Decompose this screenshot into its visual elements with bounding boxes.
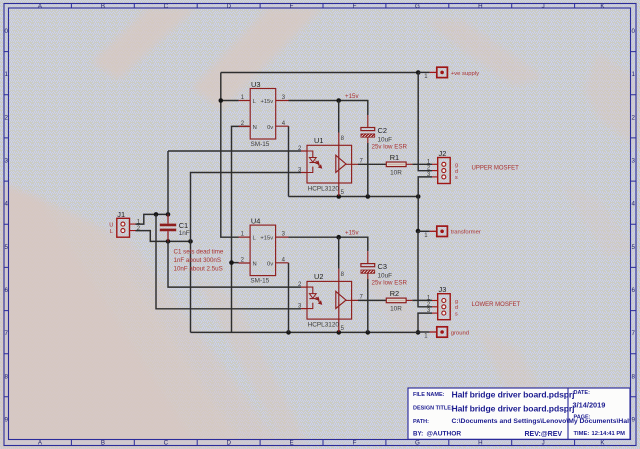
svg-text:+15v: +15v — [345, 93, 359, 100]
svg-text:1: 1 — [631, 71, 635, 78]
svg-text:4: 4 — [4, 201, 8, 208]
wire U signal to U2 pin3 — [156, 214, 301, 308]
svg-text:C: C — [164, 440, 169, 447]
svg-text:U2: U2 — [314, 272, 323, 281]
wire N rail U3 pin2 to U4 pin2 — [232, 126, 249, 262]
svg-text:25v low ESR: 25v low ESR — [372, 280, 408, 287]
svg-text:H: H — [478, 440, 482, 447]
junction C1 bottom node — [166, 239, 171, 244]
svg-text:10nF about 2.5uS: 10nF about 2.5uS — [174, 266, 223, 273]
svg-text:SM-15: SM-15 — [250, 278, 269, 285]
svg-text:J: J — [542, 3, 545, 10]
svg-text:G: G — [415, 440, 420, 447]
junction C3 neg node — [366, 330, 371, 335]
svg-text:@AUTHOR: @AUTHOR — [427, 431, 462, 438]
svg-text:DATE:: DATE: — [574, 390, 591, 396]
svg-text:N: N — [253, 125, 257, 131]
svg-text:REV:@REV: REV:@REV — [525, 431, 563, 438]
svg-text:U: U — [109, 223, 113, 229]
svg-text:7: 7 — [631, 330, 635, 337]
svg-text:10R: 10R — [390, 170, 402, 177]
svg-text:TIME:: TIME: — [574, 431, 590, 437]
wire J2 pin3 source down — [418, 177, 432, 231]
svg-text:Half bridge driver board.pdspr: Half bridge driver board.pdsprj — [452, 403, 575, 413]
svg-text:9: 9 — [631, 416, 635, 423]
wire U1 pin7 to R1 — [358, 163, 386, 165]
title block — [408, 388, 640, 439]
svg-text:BY:: BY: — [413, 431, 423, 438]
resistor R2 10R — [386, 289, 412, 313]
svg-text:C: C — [164, 3, 169, 10]
svg-text:U1: U1 — [314, 136, 323, 145]
svg-text:3: 3 — [631, 158, 635, 165]
wire +ve to J2 pin2 drain — [418, 73, 432, 171]
junction L signal / U1 pin3 node — [188, 239, 193, 244]
svg-text:7: 7 — [4, 330, 8, 337]
junction upper 0v / J2 s node — [416, 194, 421, 199]
svg-text:+15v: +15v — [260, 99, 273, 105]
wire upper 0v rail — [289, 196, 419, 198]
svg-text:H: H — [478, 3, 482, 10]
svg-text:2: 2 — [4, 114, 8, 121]
svg-text:d: d — [455, 169, 458, 175]
svg-text:8: 8 — [631, 373, 635, 380]
svg-text:ground: ground — [451, 330, 469, 336]
junction transformer node — [416, 229, 421, 234]
wire wire +15v to C3 — [339, 237, 368, 251]
svg-text:C3: C3 — [378, 262, 387, 271]
svg-text:10R: 10R — [390, 306, 402, 313]
connector J2 3-pin — [427, 149, 519, 184]
svg-text:C1: C1 — [179, 221, 188, 230]
svg-text:D: D — [226, 3, 231, 10]
svg-text:4: 4 — [631, 201, 635, 208]
svg-text:D: D — [226, 440, 231, 447]
note C1 dead time — [174, 249, 224, 273]
wire L signal to U2 pin2 — [168, 241, 301, 287]
resistor R1 10R — [386, 153, 412, 177]
junction +ve supply node — [416, 70, 421, 75]
junction C2 neg node — [366, 194, 371, 199]
svg-text:U3: U3 — [251, 80, 260, 89]
wire R2 to J3 pin1 — [412, 299, 432, 301]
optocoupler gate driver U2 HCPL3120 — [298, 269, 364, 333]
svg-text:R2: R2 — [390, 289, 399, 298]
wire U1 pin2 wire — [168, 150, 301, 152]
svg-text:HCPL3120: HCPL3120 — [308, 186, 340, 193]
junction U signal node — [154, 212, 159, 217]
wire U4 pin3 +15v wire — [289, 236, 339, 238]
svg-text:6: 6 — [631, 287, 635, 294]
svg-text:0: 0 — [4, 28, 8, 35]
capacitor C3 electrolytic — [361, 251, 408, 287]
svg-text:Half bridge driver board.pdspr: Half bridge driver board.pdsprj — [452, 390, 575, 400]
junction ground node — [416, 330, 421, 335]
svg-text:+15v: +15v — [260, 236, 273, 242]
svg-text:0v: 0v — [267, 125, 273, 131]
terminal ground — [418, 327, 469, 340]
svg-text:3: 3 — [4, 158, 8, 165]
svg-text:LOWER MOSFET: LOWER MOSFET — [472, 302, 521, 308]
frame row ticks left/right — [4, 52, 636, 397]
svg-text:PATH:: PATH: — [413, 419, 429, 425]
svg-text:d: d — [455, 305, 458, 311]
frame column ticks top/bottom — [71, 4, 574, 446]
junction N rail / U4 pin2 — [229, 260, 234, 265]
junction U2 pin5 node — [337, 330, 342, 335]
svg-text:3/14/2019: 3/14/2019 — [573, 400, 606, 409]
junction U1 pin8 / +15v node — [336, 98, 341, 103]
connector J3 3-pin — [427, 285, 521, 320]
wire U2 pin8 wire — [338, 237, 340, 268]
svg-text:DESIGN TITLE:: DESIGN TITLE: — [413, 406, 453, 412]
wire U3 pin4 down — [288, 126, 290, 196]
terminal +ve supply — [418, 67, 479, 80]
svg-text:+ve supply: +ve supply — [451, 71, 479, 77]
svg-text:+15v: +15v — [345, 230, 359, 237]
capacitor C1 1nF dead-time — [160, 214, 190, 241]
svg-text:5: 5 — [4, 244, 8, 251]
wire C2 neg wire — [367, 143, 369, 197]
junction U4 pin4 node — [286, 330, 291, 335]
svg-text:J1: J1 — [117, 210, 125, 219]
svg-text:8: 8 — [4, 373, 8, 380]
svg-text:J: J — [542, 440, 545, 447]
svg-text:12:14:41 PM: 12:14:41 PM — [592, 431, 626, 437]
svg-text:0: 0 — [631, 28, 635, 35]
svg-text:1nF: 1nF — [179, 230, 190, 237]
svg-text:6: 6 — [4, 287, 8, 294]
wire N rail vertical lower to 0v rail — [231, 263, 233, 333]
svg-text:g: g — [455, 163, 458, 169]
svg-text:s: s — [455, 175, 458, 181]
svg-text:10uF: 10uF — [378, 272, 393, 279]
svg-text:B: B — [101, 440, 105, 447]
junction U2 pin8 / +15v lower node — [336, 235, 341, 240]
svg-text:J2: J2 — [439, 149, 447, 158]
wire U3 pin3 +15v wire — [289, 100, 339, 102]
optocoupler gate driver U1 HCPL3120 — [298, 133, 364, 197]
wire lower 0v rail — [191, 331, 418, 333]
svg-text:C1 sets dead time: C1 sets dead time — [174, 249, 224, 256]
junction U1 pin5 node — [337, 194, 342, 199]
wire U1 pin8 wire — [338, 101, 340, 133]
svg-text:1: 1 — [4, 71, 8, 78]
svg-text:C2: C2 — [378, 126, 387, 135]
svg-text:F: F — [353, 3, 357, 10]
svg-text:25v low ESR: 25v low ESR — [372, 144, 408, 151]
wire transformer to J3 pin2 drain — [418, 231, 432, 307]
svg-text:10uF: 10uF — [378, 136, 393, 143]
wire L rail vertical to U4 pin1 — [221, 73, 239, 238]
svg-text:F: F — [353, 440, 357, 447]
svg-text:transformer: transformer — [451, 230, 481, 236]
wire +ve supply top rail — [221, 72, 418, 74]
svg-text:C:\Documents and Settings\Leno: C:\Documents and Settings\Lenovo\My Docu… — [452, 418, 640, 425]
svg-text:U4: U4 — [251, 216, 260, 225]
svg-text:2: 2 — [631, 114, 635, 121]
wire J3 pin3 source down — [418, 313, 432, 332]
wire R1 to J2 pin1 — [412, 163, 432, 165]
svg-text:SM-15: SM-15 — [251, 141, 270, 148]
power supply module U3 SM-15 — [239, 80, 289, 148]
svg-text:1nF about 300nS: 1nF about 300nS — [174, 257, 221, 264]
wire C1 top to U1 pin2 vertical — [167, 151, 169, 214]
junction C1 top node — [166, 212, 171, 217]
svg-text:E: E — [290, 3, 294, 10]
connector J1 2-pin input — [109, 210, 140, 237]
svg-text:E: E — [290, 440, 294, 447]
svg-text:J3: J3 — [439, 285, 447, 294]
svg-text:N: N — [253, 262, 257, 268]
wire U3 pin1 to L rail — [221, 100, 239, 102]
terminal transformer — [418, 226, 481, 239]
svg-text:UPPER MOSFET: UPPER MOSFET — [472, 166, 520, 172]
svg-text:g: g — [455, 299, 458, 305]
wire U1 pin3 vertical down — [191, 173, 302, 333]
wire U2 pin7 to R2 — [358, 299, 386, 301]
svg-text:G: G — [415, 3, 420, 10]
wire C3 neg wire — [367, 279, 369, 332]
svg-text:B: B — [101, 3, 105, 10]
svg-text:0v: 0v — [267, 262, 273, 268]
wire J1 pin2 signal L — [136, 231, 191, 242]
wire J1 pin1 signal U — [136, 214, 169, 224]
svg-text:9: 9 — [4, 416, 8, 423]
svg-text:s: s — [455, 311, 458, 317]
junction L rail / U3 pin1 — [219, 98, 224, 103]
svg-text:R1: R1 — [390, 153, 399, 162]
power supply module U4 SM-15 — [239, 216, 289, 284]
capacitor C2 electrolytic — [361, 115, 408, 151]
svg-text:HCPL3120: HCPL3120 — [308, 322, 340, 329]
svg-text:FILE NAME:: FILE NAME: — [413, 392, 445, 398]
wire U4 pin4 down — [288, 263, 290, 333]
wire wire +15v to C2 — [339, 101, 368, 116]
svg-text:5: 5 — [631, 244, 635, 251]
